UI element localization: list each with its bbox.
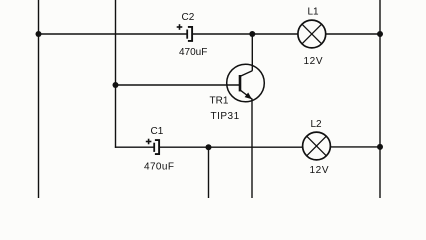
wire top rail right segment: [326, 33, 380, 35]
svg-text:C1: C1: [151, 126, 164, 137]
label TIP31: [211, 111, 240, 122]
wire top rail middle segment: [192, 33, 298, 35]
label L2: [311, 119, 323, 130]
transistor TR1: [227, 64, 265, 102]
label C2 value 470uF: [179, 47, 207, 58]
label L1: [308, 6, 320, 17]
svg-text:TIP31: TIP31: [211, 111, 240, 122]
capacitor C1: [146, 139, 159, 154]
wire right vertical rail: [379, 0, 381, 198]
node junction dot C1 output: [206, 144, 212, 150]
svg-text:12V: 12V: [310, 165, 330, 176]
svg-text:12V: 12V: [304, 56, 324, 67]
wire emitter lead: [251, 99, 253, 199]
label L2 value 12V: [310, 165, 330, 176]
node junction dot bottom-right: [377, 144, 383, 150]
lamp L1: [298, 20, 326, 48]
wire left vertical rail: [38, 0, 40, 198]
svg-text:L1: L1: [308, 6, 320, 17]
wire bottom rail left segment: [115, 146, 154, 148]
label TR1: [210, 95, 229, 106]
wire C1 node vertical: [208, 147, 210, 198]
wire bottom rail middle segment: [160, 146, 303, 148]
node junction dot base branch: [113, 82, 119, 88]
capacitor C2: [177, 24, 192, 41]
wire base horizontal: [116, 84, 241, 86]
node junction dot top-right: [377, 31, 383, 37]
wire bottom rail right segment: [330, 146, 380, 148]
node junction dot top-left: [36, 31, 42, 37]
node junction dot collector top: [249, 31, 255, 37]
label C2: [182, 12, 195, 23]
svg-text:470uF: 470uF: [179, 47, 207, 58]
label L1 value 12V: [304, 56, 324, 67]
lamp L2: [303, 132, 331, 160]
label C1 value 470uF: [144, 162, 174, 173]
wire collector lead: [251, 34, 253, 71]
svg-text:L2: L2: [311, 119, 323, 130]
label C1: [151, 126, 164, 137]
svg-text:C2: C2: [182, 12, 195, 23]
wire top rail left segment: [39, 33, 188, 35]
wire base branch vertical: [115, 0, 117, 148]
svg-text:470uF: 470uF: [144, 162, 174, 173]
svg-text:TR1: TR1: [210, 95, 229, 106]
